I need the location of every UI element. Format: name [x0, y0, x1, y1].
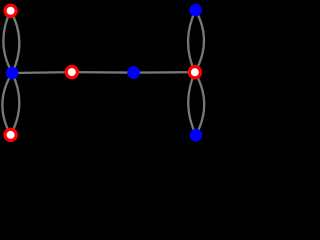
node D (red ring, middle): [66, 67, 77, 78]
wire: parallel edge F-G right arc: [195, 10, 204, 72]
wire: parallel edge G-H right arc: [195, 72, 204, 135]
wire: edge E-G: [134, 71, 195, 74]
wire: edge B-D: [12, 71, 72, 74]
node C (red ring, bottom-left): [5, 129, 16, 140]
node B (blue disc, mid-left): [6, 67, 19, 80]
node H (blue disc, bottom-right): [190, 129, 203, 142]
wire: parallel edge B-C left arc: [2, 73, 12, 135]
wire: parallel edge A-B right arc: [11, 11, 20, 73]
node F (blue disc, top-right): [189, 4, 202, 17]
wire: edge D-E: [72, 71, 134, 74]
node G (red ring, mid-right): [189, 67, 200, 78]
wire: parallel edge F-G left arc: [188, 10, 196, 72]
wire: parallel edge A-B left arc: [3, 11, 12, 73]
wire: parallel edge G-H left arc: [188, 72, 196, 135]
wire: parallel edge B-C right arc: [11, 73, 20, 135]
node E (blue disc, middle): [127, 66, 140, 79]
node A (red ring, top-left): [5, 5, 16, 16]
